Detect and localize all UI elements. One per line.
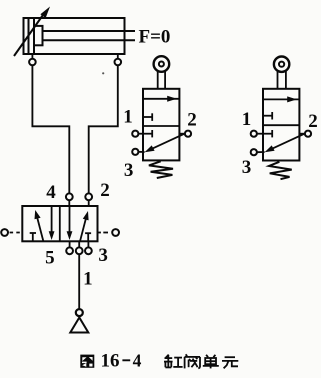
- svg-text:16: 16: [101, 350, 120, 371]
- svg-text:4: 4: [46, 182, 56, 203]
- piston rod upper line: [43, 30, 135, 32]
- V1 left pilot circle: [1, 229, 8, 236]
- V3 bottom square blocked port T: [263, 130, 272, 137]
- caption dash: [122, 359, 130, 361]
- V1 port 1 circle: [76, 247, 83, 254]
- V2 port 3 circle: [132, 149, 138, 155]
- V3 port 2 stub: [299, 133, 305, 135]
- svg-text:3: 3: [124, 160, 134, 181]
- V2 exhaust diagonal arrow: [145, 134, 184, 152]
- valve V1 port 4 circle: [66, 193, 73, 200]
- caption glyph 阀: [185, 354, 200, 368]
- svg-text:1: 1: [242, 109, 252, 130]
- supply wire from port 1: [78, 254, 80, 309]
- valve V2 roller inner circle: [159, 62, 164, 67]
- V3 position divider: [263, 124, 299, 126]
- adjustability arrow across cylinder: [14, 7, 50, 57]
- V1 left pilot dashed line: [10, 232, 23, 234]
- V1 right square diagonal arrow: [80, 211, 89, 241]
- V3 stem left line: [277, 71, 279, 89]
- V1 left square diagonal arrow: [35, 210, 44, 241]
- 5/2 valve V1 body: [22, 206, 97, 241]
- valve V2 roller outer circle: [154, 56, 170, 72]
- V2 port 2 circle: [185, 131, 191, 137]
- svg-text:2: 2: [187, 109, 197, 130]
- V1 right square down arrow: [67, 206, 73, 240]
- V1 right pilot circle: [112, 229, 119, 236]
- piston line a: [28, 18, 30, 54]
- V1 right pilot stub: [98, 232, 101, 234]
- svg-text:3: 3: [98, 245, 108, 266]
- V1 left square down arrow: [49, 206, 55, 240]
- V2 port 3 stub: [138, 151, 144, 153]
- piston rod lower line: [43, 39, 135, 41]
- V2 return spring: [149, 161, 173, 178]
- V3 port 1 circle: [251, 131, 257, 137]
- cylinder left port stub: [31, 54, 33, 59]
- V1 port 3 stub: [87, 241, 89, 247]
- svg-text:3: 3: [242, 157, 252, 178]
- V2 port 1 circle: [132, 131, 138, 137]
- V3 stem right line: [285, 71, 287, 89]
- V2 top square blocked port T: [143, 113, 152, 121]
- rod boss: [34, 26, 43, 45]
- V1 right square blocked port T: [85, 233, 91, 241]
- V3 exhaust diagonal arrow: [265, 134, 304, 152]
- scan speck: [102, 72, 104, 74]
- V1 port 5 stub: [69, 241, 71, 247]
- valve V3 roller inner circle: [279, 62, 284, 67]
- V1 left square blocked port T: [30, 233, 36, 241]
- V2 position divider: [143, 125, 179, 127]
- valve V1 port 2 circle: [85, 193, 92, 200]
- wire from right cylinder port to valve port 2: [89, 65, 118, 193]
- V1 right pilot dash: [103, 232, 108, 234]
- svg-text:1: 1: [123, 107, 133, 128]
- V3 port 3 stub: [257, 151, 265, 153]
- wire from left cylinder port to valve port 4: [32, 65, 69, 193]
- V1 position divider: [59, 206, 61, 241]
- V3 return spring: [269, 162, 292, 179]
- V2 port 2 stub: [179, 133, 185, 135]
- V2 stem right line: [164, 71, 166, 89]
- svg-text:F=0: F=0: [139, 27, 171, 48]
- piston line b: [33, 18, 35, 54]
- port 2 stub: [88, 200, 90, 206]
- V3 port 2 circle: [305, 131, 311, 137]
- V1 port 1 stub: [78, 241, 80, 247]
- valve V2 body: [143, 89, 179, 161]
- port 4 stub: [68, 200, 70, 206]
- svg-text:5: 5: [45, 247, 55, 268]
- V2 stem left line: [157, 71, 159, 89]
- V3 top square flow arrow: [263, 96, 299, 102]
- valve V3 body: [263, 89, 299, 161]
- V2 top square flow arrow: [143, 96, 179, 102]
- cylinder right port stub: [117, 54, 119, 59]
- V3 top square blocked port T: [263, 112, 272, 120]
- svg-text:2: 2: [308, 111, 318, 132]
- V3 port 3 circle: [251, 149, 257, 155]
- V1 port 3 circle: [85, 247, 92, 254]
- valve V3 roller outer circle: [274, 56, 289, 71]
- svg-text:2: 2: [100, 180, 110, 201]
- caption glyph 元: [222, 357, 238, 368]
- svg-text:1: 1: [83, 269, 93, 290]
- V2 bottom square blocked port T: [143, 130, 152, 137]
- V3 port 1 stub: [257, 133, 263, 135]
- caption glyph 图: [80, 355, 94, 368]
- V1 port 5 circle: [66, 247, 73, 254]
- V2 port 1 stub: [138, 133, 143, 135]
- caption glyph 单: [203, 355, 219, 369]
- pressure source circle: [76, 309, 83, 316]
- caption glyph 缸: [164, 355, 183, 368]
- cylinder left port circle: [29, 59, 36, 66]
- pressure source triangle: [70, 318, 88, 333]
- svg-text:4: 4: [133, 350, 142, 370]
- cylinder barrel: [24, 18, 125, 54]
- cylinder right port circle: [115, 59, 122, 66]
